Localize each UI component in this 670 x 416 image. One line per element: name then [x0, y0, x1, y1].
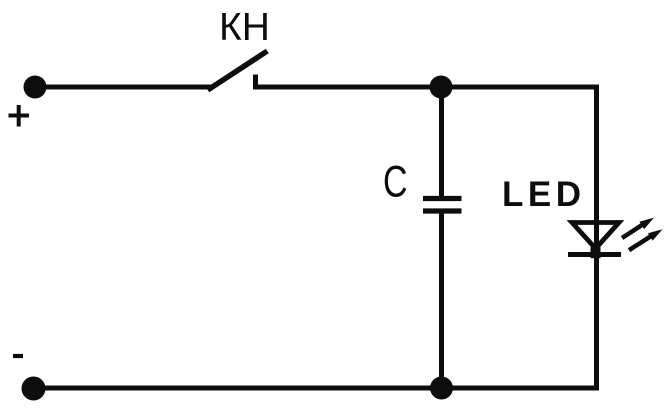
wire: top-left from + terminal to switch	[35, 85, 214, 90]
label: + polarity sign	[9, 105, 30, 127]
svg-text:КН: КН	[219, 6, 270, 49]
LED light arrow 1 head	[639, 218, 654, 230]
capacitor C plates	[423, 199, 462, 212]
wire: capacitor branch upper segment	[439, 87, 444, 198]
wire: top from switch to top-right corner	[253, 85, 594, 90]
svg-text:LED: LED	[502, 175, 586, 214]
switch KH blade	[210, 53, 265, 89]
LED light arrow 2 head	[648, 229, 663, 240]
wire: capacitor branch lower segment	[439, 212, 444, 388]
svg-text:C: C	[383, 158, 408, 207]
LED D1 apex junction blob	[591, 247, 601, 258]
switch KH fixed contact tick	[253, 75, 258, 89]
node: top junction dot at capacitor branch	[430, 76, 453, 99]
LED light arrow 2 shaft	[629, 236, 652, 250]
LED D1 triangle (anode)	[572, 223, 619, 249]
node: - terminal dot	[22, 377, 46, 401]
node: + terminal dot	[24, 76, 47, 99]
wire: top-right corner joining	[592, 85, 599, 90]
wire: right vertical branch (LED branch)	[594, 85, 599, 389]
label: - polarity sign	[13, 354, 23, 358]
wire: bottom from - terminal to bottom-right corner	[34, 386, 599, 391]
node: bottom junction dot at capacitor branch	[430, 377, 453, 400]
LED light arrow 1 shaft	[622, 224, 643, 238]
LED D1 cathode bar	[568, 252, 621, 257]
